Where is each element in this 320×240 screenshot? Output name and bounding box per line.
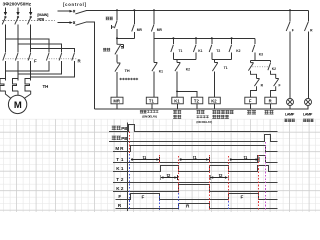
timing dimension t1 first: [131, 159, 159, 161]
svg-text:T2: T2: [216, 49, 220, 53]
lamp forward (正転中): [287, 99, 294, 106]
contact F aux (NO) for lamp: [289, 10, 291, 21]
svg-text:MR: MR: [113, 99, 120, 104]
timer coil T1 (運転タイマー): [146, 97, 158, 104]
node sub-rail / K1 contact: [195, 37, 197, 39]
waveform 起動PB (start button): [109, 125, 278, 132]
contactor R linkage (dotted): [47, 58, 77, 60]
svg-text:T2: T2: [116, 177, 124, 182]
contact R aux (NO) for lamp: [307, 10, 309, 21]
contact K1 self-hold (NO): [195, 38, 197, 44]
contact K1 (NC) in T1 branch: [153, 38, 155, 62]
timing dimension t2 first: [161, 177, 177, 179]
contactor R main contacts (3 poles): [46, 53, 74, 61]
timing dimension t2 second: [211, 177, 228, 179]
wire phase L3 vertical: [30, 25, 32, 53]
label 一旦停止: [173, 110, 181, 114]
waveform K2: [113, 185, 278, 192]
wire R outputs crossover to phases: [5, 61, 74, 77]
svg-text:R: R: [78, 59, 82, 64]
svg-text:MR: MR: [137, 28, 143, 32]
label 逆転運転へ切り替え: [212, 110, 233, 114]
label thermal relay サーマルリレー: [120, 78, 139, 80]
label 停止タイマー (ON DELAY): [197, 110, 205, 114]
svg-text:t1: t1: [143, 155, 147, 160]
svg-text:TH: TH: [125, 69, 130, 73]
wire split to T2 coil: [177, 91, 197, 97]
node sub-rail / T2 contact: [211, 37, 213, 39]
wire junction of T1/K1 contacts: [173, 59, 196, 61]
K2 transfer linkage (dotted): [250, 66, 268, 68]
label stop button 停止: [103, 48, 110, 51]
waveform R: [116, 204, 278, 209]
contact K2 (NO) in R leg: [270, 61, 272, 63]
relay coil MR (main relay): [111, 97, 123, 104]
svg-text:3Φ200V50Hz: 3Φ200V50Hz: [3, 2, 32, 7]
thermal overload relay TH heater elements: [0, 79, 31, 92]
event marker start (x=130): [129, 132, 131, 155]
contact MR self-hold (NO): [133, 10, 135, 23]
waveform 停止PB (stop button): [109, 135, 278, 142]
svg-text:F: F: [279, 83, 281, 87]
waveform MR: [113, 146, 278, 152]
svg-text:K1: K1: [159, 69, 163, 73]
svg-text:T1: T1: [224, 66, 228, 70]
svg-text:R: R: [269, 99, 272, 104]
svg-text:[control]: [control]: [63, 2, 87, 7]
svg-text:t2: t2: [167, 173, 171, 178]
node sub-rail / K2 contact: [231, 37, 233, 39]
node bus / F lamp branch: [289, 9, 291, 11]
svg-text:K3: K3: [259, 52, 263, 56]
svg-text:F: F: [34, 59, 37, 64]
pushbutton start PB1 (NO): [116, 10, 118, 20]
svg-text:T1: T1: [116, 157, 124, 162]
timer coil T2 (停止タイマー): [191, 97, 203, 104]
svg-text:t2: t2: [219, 173, 223, 178]
svg-text:K2: K2: [272, 67, 276, 71]
thermal relay contact TH (NC): [115, 63, 121, 72]
event marker stop (x=265.5): [265, 142, 267, 210]
contactor coil R (逆転): [265, 97, 277, 104]
node bus / MR hold contact: [133, 9, 135, 11]
wire tap L1 to reverse branch: [5, 39, 49, 53]
event marker t1 third end (x=258.8): [258, 155, 260, 210]
contact K1 feed for F/R branch (NO): [254, 38, 256, 44]
wire phase L1 vertical: [4, 25, 6, 53]
wire tap L2 to reverse branch: [18, 44, 62, 53]
label 逆転: [265, 110, 274, 114]
label start button 起動: [106, 17, 113, 20]
node bus / MR feed contact: [153, 9, 155, 11]
svg-text:F: F: [118, 194, 121, 199]
interlock contact F (NC) in R leg: [274, 79, 279, 87]
wire F outputs down: [5, 61, 30, 81]
contact T2 (NO, timer): [211, 38, 213, 44]
event marker reverse end (x=209.4): [209, 155, 211, 210]
contactor coil F (正転): [245, 97, 256, 104]
svg-text:K2: K2: [211, 99, 217, 104]
wire split to F and R legs: [251, 60, 271, 62]
svg-text:TH: TH: [43, 84, 49, 89]
svg-text:T1: T1: [179, 49, 183, 53]
svg-text:K1: K1: [116, 166, 124, 171]
svg-text:K2: K2: [116, 186, 124, 191]
svg-text:M: M: [14, 100, 22, 111]
contact K2 (NC): [176, 60, 178, 63]
interlock contact R (NC) in F leg: [254, 79, 259, 87]
svg-text:F: F: [249, 99, 252, 104]
wire control L rail (top bus): [86, 9, 308, 11]
event marker t1 end (x=159.8): [159, 155, 161, 164]
row label PB1 (起動PB): [112, 126, 121, 130]
event marker forward restart (x=228.6): [228, 156, 230, 201]
relay coil K2 (逆転切替): [209, 97, 221, 104]
wire junction of T2/K2 contacts: [212, 59, 232, 61]
svg-text:R: R: [261, 83, 264, 87]
wire phase L2 vertical: [17, 25, 19, 53]
waveform T1: [113, 156, 278, 163]
contact T1 (NO, timer): [172, 38, 174, 44]
control breaker pole lower with feed arrow: [58, 22, 71, 24]
3-phase supply feed arrows: [4, 8, 33, 16]
svg-text:K1: K1: [174, 99, 180, 104]
svg-text:MR: MR: [157, 28, 163, 32]
wire tap L3 to reverse branch: [31, 49, 75, 53]
waveform K1: [113, 166, 278, 172]
contact MR rail feed (NO): [153, 10, 155, 23]
contactor F main contacts (3 poles): [3, 53, 31, 61]
waveform T2: [113, 182, 278, 184]
svg-text:LAMP: LAMP: [285, 111, 295, 116]
timing dimension t1 third: [230, 159, 258, 161]
circuit breaker MCB [MAIN] Q1 (3 poles): [2, 16, 31, 24]
pushbutton stop PB2 (NC): [116, 38, 118, 44]
svg-text:T2: T2: [194, 99, 200, 104]
label 運転タイマー (ON DELAY): [140, 110, 147, 113]
svg-text:R: R: [310, 28, 313, 32]
svg-text:K1: K1: [198, 49, 202, 53]
svg-text:(ON DELAY): (ON DELAY): [196, 120, 212, 124]
wire self-hold node: [117, 37, 134, 39]
svg-text:K2: K2: [236, 49, 240, 53]
svg-text:LAMP: LAMP: [303, 111, 313, 116]
timing dimension t1 second: [180, 159, 209, 161]
wire control N feed to bottom rail: [86, 22, 95, 109]
row label PB2 (停止PB): [112, 136, 121, 140]
contact K2 (NC) in F leg: [250, 61, 252, 63]
svg-text:R: R: [186, 203, 190, 208]
motor M (3-phase): [5, 91, 30, 99]
svg-text:[MAIN]: [MAIN]: [37, 13, 49, 17]
timing chart axis: [127, 123, 129, 212]
waveform F: [116, 194, 278, 200]
svg-text:F: F: [241, 195, 244, 200]
wire control bottom rail: [95, 108, 309, 110]
control breaker pole upper with feed arrow: [58, 10, 71, 12]
svg-text:t1: t1: [244, 155, 248, 160]
MCB mechanical linkage (dashed): [2, 20, 55, 22]
label 正転: [247, 110, 256, 114]
contact T1 (NC): [214, 60, 216, 63]
svg-text:(ON DELAY): (ON DELAY): [142, 115, 157, 119]
node bus / start button: [116, 9, 118, 11]
svg-text:MR: MR: [115, 146, 124, 151]
svg-text:F: F: [142, 195, 145, 200]
svg-text:T1: T1: [149, 99, 155, 104]
contact K2 self-hold (NO): [231, 38, 233, 44]
node sub-rail / T1 contact: [172, 37, 174, 39]
svg-text:MCB: MCB: [37, 18, 44, 22]
contactor F linkage (dotted): [3, 58, 33, 60]
svg-text:K2: K2: [186, 67, 190, 71]
svg-text:F: F: [292, 28, 294, 32]
lamp reverse (逆転中): [305, 99, 312, 106]
relay coil K1 (一旦停止): [172, 97, 184, 104]
event marker reverse start (x=178.5): [178, 156, 180, 193]
wire control sub-rail: [154, 37, 255, 39]
